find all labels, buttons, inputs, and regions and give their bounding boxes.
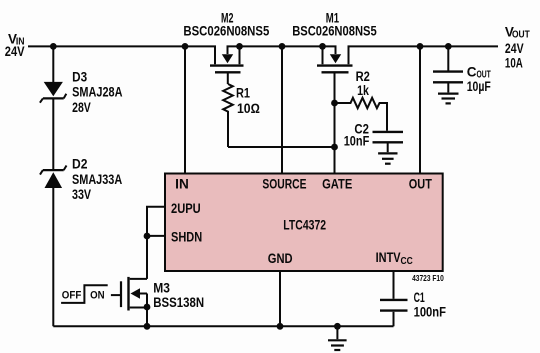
- svg-text:43723 F10: 43723 F10: [412, 273, 444, 283]
- svg-text:OFF: OFF: [62, 289, 82, 301]
- svg-text:33V: 33V: [72, 187, 91, 202]
- svg-text:R1: R1: [236, 86, 250, 101]
- svg-text:D3: D3: [72, 69, 87, 84]
- svg-text:INTV: INTV: [376, 250, 401, 265]
- svg-text:10Ω: 10Ω: [237, 101, 260, 116]
- svg-text:BSC026N08NS5: BSC026N08NS5: [292, 24, 377, 39]
- svg-text:GATE: GATE: [322, 177, 352, 192]
- svg-text:C: C: [467, 65, 477, 80]
- svg-text:24V: 24V: [5, 44, 25, 59]
- svg-text:OUT: OUT: [409, 177, 433, 192]
- svg-text:OUT: OUT: [512, 30, 530, 41]
- svg-text:10µF: 10µF: [467, 79, 491, 94]
- svg-text:10A: 10A: [505, 56, 523, 71]
- svg-text:10nF: 10nF: [344, 134, 370, 149]
- svg-text:2UPU: 2UPU: [171, 201, 201, 216]
- svg-text:24V: 24V: [505, 41, 524, 56]
- svg-text:M3: M3: [153, 281, 170, 296]
- svg-text:IN: IN: [175, 177, 189, 192]
- svg-text:LTC4372: LTC4372: [283, 217, 326, 232]
- svg-text:ON: ON: [90, 289, 105, 301]
- svg-text:1k: 1k: [357, 83, 369, 98]
- svg-text:R2: R2: [356, 69, 370, 84]
- svg-text:28V: 28V: [72, 100, 91, 115]
- svg-text:SMAJ28A: SMAJ28A: [72, 85, 123, 100]
- svg-text:SMAJ33A: SMAJ33A: [72, 172, 122, 187]
- svg-text:SHDN: SHDN: [171, 230, 202, 245]
- svg-text:100nF: 100nF: [414, 305, 446, 320]
- svg-text:BSS138N: BSS138N: [153, 295, 204, 310]
- svg-text:C1: C1: [414, 290, 426, 305]
- svg-text:BSC026N08NS5: BSC026N08NS5: [183, 24, 269, 39]
- svg-text:GND: GND: [268, 251, 293, 266]
- svg-text:D2: D2: [72, 157, 88, 172]
- svg-text:SOURCE: SOURCE: [262, 177, 306, 192]
- svg-text:CC: CC: [401, 256, 413, 267]
